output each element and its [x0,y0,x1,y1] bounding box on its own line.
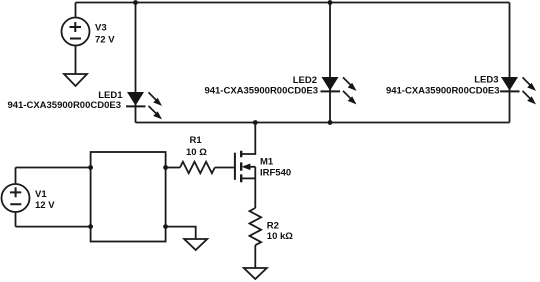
resistor R2 [250,208,262,245]
svg-text:IRF540: IRF540 [260,168,291,179]
wire V3 stem top [75,3,77,18]
resistor R1 [180,162,215,174]
svg-text:LED3: LED3 [474,75,498,86]
LED3 cathode bar [500,90,520,92]
svg-text:10 kΩ: 10 kΩ [267,231,293,242]
transistor M1 source lead [242,177,255,179]
wire R2 to ground [254,245,256,268]
svg-text:R1: R1 [190,135,203,146]
wire V1 bottom to box [16,226,91,228]
svg-text:R2: R2 [267,220,279,231]
svg-text:941-CXA35900R00CD0E3: 941-CXA35900R00CD0E3 [7,100,121,111]
LED1 emission arrows [149,92,163,119]
svg-text:V1: V1 [35,189,47,200]
LED2 cathode bar [321,90,341,92]
svg-text:V3: V3 [95,23,107,34]
node junction top rail / LED1 [133,0,138,5]
node junction bottom rail / drain [253,120,258,125]
wire LED2 vertical [329,3,331,123]
LED3 diode triangle [501,77,518,91]
LED2 emission arrows [343,77,357,104]
svg-text:M1: M1 [260,156,274,167]
svg-text:72 V: 72 V [95,34,115,45]
transistor M1 body arrow [248,166,255,168]
node box right top [163,165,168,170]
ground (V3) [64,74,87,86]
node box right bottom [163,224,168,229]
wire LED3 vertical [509,3,511,123]
LED3 emission arrows [523,77,537,104]
wire LED1 vertical [135,3,137,123]
wire source to R2 [254,178,256,208]
wire top rail [76,2,510,4]
wire V3 to ground [75,46,77,75]
transistor M1 channel bars [240,151,242,182]
wire R1 to gate [215,167,234,169]
wire bottom LED rail [136,122,510,124]
svg-text:LED1: LED1 [98,90,123,101]
ground (R2) [244,268,267,279]
wire V1 top to box [16,167,91,169]
transistor M1 drain lead [242,123,255,155]
transistor M1 body-source tie [254,167,256,179]
svg-text:941-CXA35900R00CD0E3: 941-CXA35900R00CD0E3 [204,85,318,96]
node junction top rail / LED2 [328,0,333,5]
LED2 diode triangle [322,77,339,91]
LED1 diode triangle [127,92,144,106]
node junction bottom rail / LED2 [328,120,333,125]
svg-text:12 V: 12 V [35,200,55,211]
svg-text:941-CXA35900R00CD0E3: 941-CXA35900R00CD0E3 [386,86,500,97]
wire box to R1 [166,167,180,169]
block box [91,152,166,242]
svg-text:LED2: LED2 [293,75,317,86]
node box left top [88,165,93,170]
svg-text:10 Ω: 10 Ω [186,147,207,158]
voltage source V3 [62,18,90,46]
voltage source V1 [15,168,17,227]
node box left bottom [88,224,93,229]
wire box to ground [166,227,196,239]
transistor M1 gate bar [234,153,236,180]
ground (box) [184,239,207,250]
LED1 cathode bar [126,105,146,107]
